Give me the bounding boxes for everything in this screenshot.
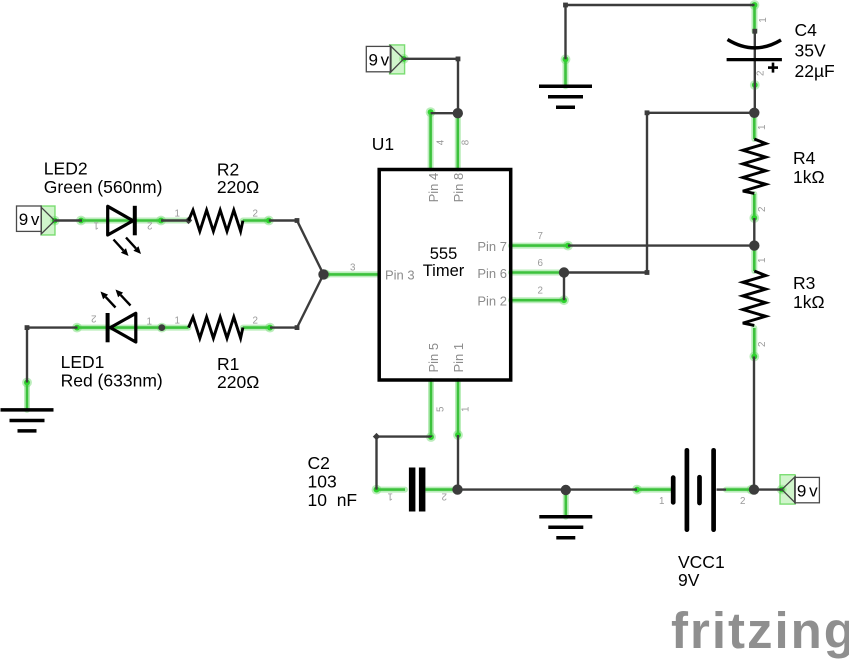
svg-text:2: 2 bbox=[538, 286, 543, 297]
svg-text:1: 1 bbox=[757, 258, 768, 263]
svg-text:7: 7 bbox=[538, 231, 543, 242]
svg-text:C4: C4 bbox=[795, 20, 818, 40]
svg-text:U1: U1 bbox=[372, 134, 394, 154]
svg-text:35V: 35V bbox=[795, 41, 826, 61]
svg-text:1kΩ: 1kΩ bbox=[793, 292, 825, 312]
svg-text:9 v: 9 v bbox=[797, 481, 818, 500]
svg-text:fritzing: fritzing bbox=[671, 602, 849, 659]
svg-text:Pin 6: Pin 6 bbox=[477, 266, 507, 281]
svg-text:2: 2 bbox=[91, 313, 96, 324]
svg-text:10 nF: 10 nF bbox=[308, 490, 358, 510]
svg-text:6: 6 bbox=[538, 258, 544, 269]
svg-text:Timer: Timer bbox=[423, 262, 465, 280]
svg-text:9V: 9V bbox=[678, 570, 700, 590]
svg-text:3: 3 bbox=[350, 262, 356, 273]
svg-text:2: 2 bbox=[740, 496, 745, 507]
svg-text:1: 1 bbox=[757, 125, 768, 130]
svg-text:Pin 3: Pin 3 bbox=[385, 267, 415, 282]
svg-text:9 v: 9 v bbox=[369, 50, 390, 69]
svg-text:2: 2 bbox=[253, 315, 258, 326]
svg-text:22µF: 22µF bbox=[795, 61, 835, 81]
svg-text:1: 1 bbox=[175, 315, 180, 326]
svg-text:2: 2 bbox=[147, 220, 152, 231]
svg-text:1: 1 bbox=[659, 496, 664, 507]
svg-text:2: 2 bbox=[757, 207, 768, 212]
svg-text:1kΩ: 1kΩ bbox=[793, 167, 825, 187]
svg-text:103: 103 bbox=[308, 472, 337, 492]
svg-text:VCC1: VCC1 bbox=[678, 552, 725, 572]
svg-text:Pin 8: Pin 8 bbox=[451, 173, 466, 203]
svg-text:9 v: 9 v bbox=[19, 210, 40, 229]
svg-text:Pin 2: Pin 2 bbox=[477, 294, 507, 309]
svg-text:4: 4 bbox=[435, 139, 446, 145]
svg-text:Green (560nm): Green (560nm) bbox=[44, 177, 163, 197]
svg-text:LED1: LED1 bbox=[61, 352, 105, 372]
svg-text:1: 1 bbox=[94, 220, 99, 231]
svg-text:R4: R4 bbox=[793, 148, 816, 168]
svg-text:5: 5 bbox=[435, 406, 446, 412]
svg-text:Red (633nm): Red (633nm) bbox=[61, 371, 163, 391]
svg-text:C2: C2 bbox=[308, 453, 330, 473]
svg-text:220Ω: 220Ω bbox=[217, 177, 259, 197]
svg-text:1: 1 bbox=[388, 491, 393, 502]
svg-text:2: 2 bbox=[442, 491, 447, 502]
svg-text:Pin 4: Pin 4 bbox=[426, 173, 441, 203]
svg-text:1: 1 bbox=[147, 317, 152, 328]
svg-text:LED2: LED2 bbox=[44, 159, 88, 179]
svg-text:R3: R3 bbox=[793, 273, 815, 293]
svg-text:2: 2 bbox=[757, 342, 768, 347]
svg-text:1: 1 bbox=[175, 209, 180, 220]
svg-text:Pin 7: Pin 7 bbox=[477, 239, 507, 254]
svg-text:8: 8 bbox=[461, 139, 472, 145]
svg-text:Pin 1: Pin 1 bbox=[451, 343, 466, 373]
svg-text:555: 555 bbox=[430, 245, 458, 263]
svg-text:1: 1 bbox=[758, 17, 769, 22]
svg-text:2: 2 bbox=[253, 209, 258, 220]
svg-text:R1: R1 bbox=[217, 354, 239, 374]
svg-text:Pin 5: Pin 5 bbox=[426, 343, 441, 373]
svg-text:220Ω: 220Ω bbox=[217, 372, 259, 392]
svg-text:2: 2 bbox=[756, 71, 767, 76]
svg-text:1: 1 bbox=[461, 407, 472, 412]
